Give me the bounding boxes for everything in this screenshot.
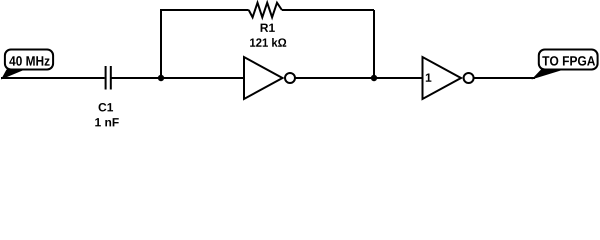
node B junction dot bbox=[371, 75, 377, 81]
wire node A vertical feedback riser bbox=[160, 10, 162, 78]
resistor R1 value label bbox=[250, 38, 286, 47]
op-amp U1 inverter triangle bbox=[244, 57, 283, 99]
wire top feedback right segment bbox=[282, 9, 374, 11]
wire node B vertical feedback drop bbox=[373, 10, 375, 78]
capacitor C1 value label bbox=[95, 118, 118, 126]
capacitor C1 reference label bbox=[99, 103, 114, 111]
wire from C1 to inverter U1 input (through node A) bbox=[111, 77, 244, 79]
capacitor C1 bbox=[106, 66, 111, 90]
node TO FPGA flag box bbox=[539, 50, 598, 70]
node 40 MHz flag tail bbox=[1, 70, 25, 80]
op-amp U2 inverter triangle bbox=[423, 57, 462, 99]
node 40 MHz flag box bbox=[5, 50, 53, 70]
wire from U1 output to U2 input (through node B) bbox=[296, 77, 423, 79]
resistor R1 bbox=[249, 3, 282, 18]
wire from 40 MHz flag to C1 bbox=[1, 77, 105, 79]
node A junction dot bbox=[158, 75, 164, 81]
wire from U2 output to TO FPGA flag bbox=[474, 77, 535, 79]
wire top feedback left segment bbox=[160, 9, 249, 11]
op-amp U2 gate "1" pin label bbox=[426, 73, 432, 81]
node TO FPGA flag tail bbox=[532, 70, 565, 80]
op-amp U1 inverter bubble bbox=[285, 73, 295, 83]
resistor R1 reference label bbox=[261, 24, 275, 32]
op-amp U2 inverter bubble bbox=[464, 73, 474, 83]
node TO FPGA label bbox=[542, 56, 595, 66]
node 40 MHz label bbox=[9, 56, 49, 66]
